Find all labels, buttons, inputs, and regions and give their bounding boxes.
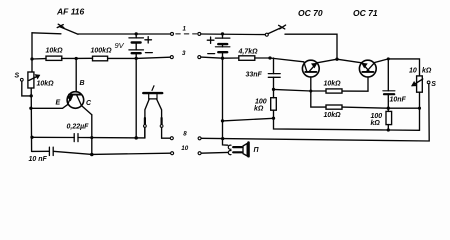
svg-text:10kΩ: 10kΩ [46,48,64,55]
svg-text:kΩ: kΩ [422,68,432,75]
svg-text:B: B [80,80,85,87]
svg-text:1: 1 [183,26,187,33]
svg-text:100: 100 [371,113,383,120]
svg-text:10kΩ: 10kΩ [37,81,55,88]
svg-text:0,22µF: 0,22µF [67,124,90,131]
svg-text:4,7kΩ: 4,7kΩ [238,49,259,56]
svg-text:10kΩ: 10kΩ [324,81,342,88]
svg-text:10 nF: 10 nF [29,156,48,163]
svg-text:C: C [86,100,92,107]
svg-text:3: 3 [182,50,186,57]
svg-text:kΩ: kΩ [371,120,381,127]
svg-text:10: 10 [181,145,188,152]
svg-text:OC 71: OC 71 [353,8,378,18]
svg-text:9V: 9V [115,41,125,50]
svg-text:AF 116: AF 116 [56,7,85,17]
svg-text:10nF: 10nF [390,97,407,104]
svg-text:10: 10 [409,68,417,75]
svg-text:33nF: 33nF [246,72,263,79]
svg-text:S: S [431,81,436,88]
svg-text:Π: Π [254,147,260,154]
svg-text:100kΩ: 100kΩ [91,48,113,55]
svg-text:kΩ: kΩ [254,106,264,113]
svg-text:10kΩ: 10kΩ [324,112,342,119]
svg-text:OC 70: OC 70 [298,8,323,18]
svg-text:S: S [15,73,20,80]
svg-text:100: 100 [255,99,267,106]
svg-text:E: E [56,100,61,107]
svg-text:8: 8 [183,131,187,138]
